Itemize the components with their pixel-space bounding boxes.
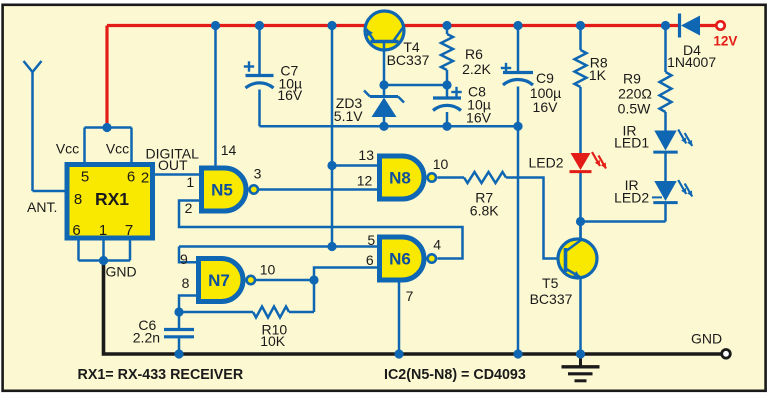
svg-text:220Ω: 220Ω	[618, 86, 652, 102]
svg-text:3: 3	[254, 166, 262, 182]
svg-text:8: 8	[182, 275, 190, 291]
svg-text:0.5W: 0.5W	[618, 101, 651, 117]
svg-text:5: 5	[81, 169, 89, 186]
svg-text:RX1: RX1	[95, 189, 129, 209]
svg-text:ANT.: ANT.	[27, 199, 57, 215]
svg-text:2: 2	[185, 200, 193, 216]
svg-text:2.2n: 2.2n	[133, 330, 160, 346]
svg-text:1K: 1K	[589, 67, 607, 83]
svg-text:GND: GND	[691, 331, 722, 347]
svg-text:10: 10	[433, 156, 449, 172]
svg-text:2.2K: 2.2K	[462, 61, 491, 77]
svg-text:13: 13	[358, 147, 374, 163]
svg-text:16V: 16V	[533, 99, 559, 115]
svg-text:OUT: OUT	[158, 157, 188, 173]
svg-text:6: 6	[72, 222, 80, 239]
svg-text:6.8K: 6.8K	[470, 203, 499, 219]
svg-text:R6: R6	[465, 46, 483, 62]
svg-text:GND: GND	[106, 264, 137, 280]
svg-text:C9: C9	[536, 70, 554, 86]
svg-text:Vcc: Vcc	[56, 141, 79, 157]
svg-text:BC337: BC337	[530, 291, 573, 307]
svg-text:12: 12	[357, 172, 373, 188]
svg-text:IC2(N5-N8) = CD4093: IC2(N5-N8) = CD4093	[384, 367, 526, 383]
svg-text:8: 8	[74, 191, 82, 208]
svg-text:RX1= RX-433 RECEIVER: RX1= RX-433 RECEIVER	[78, 367, 244, 383]
svg-text:6: 6	[127, 169, 135, 186]
svg-text:10: 10	[260, 262, 276, 278]
svg-text:9: 9	[180, 251, 188, 267]
svg-text:12V: 12V	[713, 34, 737, 49]
svg-text:10K: 10K	[260, 333, 286, 349]
svg-text:LED2: LED2	[614, 189, 649, 205]
svg-text:16V: 16V	[277, 87, 303, 103]
svg-text:2: 2	[141, 170, 149, 187]
svg-text:5.1V: 5.1V	[334, 108, 363, 124]
svg-text:N5: N5	[211, 181, 233, 200]
svg-text:N6: N6	[389, 250, 411, 269]
svg-text:N8: N8	[389, 169, 411, 188]
svg-text:BC337: BC337	[387, 52, 430, 68]
svg-text:7: 7	[125, 222, 133, 239]
svg-text:6: 6	[366, 252, 374, 268]
svg-text:4: 4	[433, 236, 441, 252]
svg-text:5: 5	[367, 232, 375, 248]
svg-text:16V: 16V	[466, 110, 492, 126]
svg-text:1: 1	[99, 222, 107, 239]
svg-text:R9: R9	[623, 71, 641, 87]
svg-text:LED1: LED1	[614, 135, 649, 151]
svg-text:1N4007: 1N4007	[667, 54, 716, 70]
svg-text:N7: N7	[208, 271, 230, 290]
svg-text:14: 14	[221, 142, 237, 158]
svg-text:T5: T5	[542, 275, 559, 291]
svg-text:Vcc: Vcc	[106, 141, 129, 157]
svg-text:1: 1	[186, 174, 194, 190]
svg-text:7: 7	[406, 288, 414, 304]
svg-text:LED2: LED2	[528, 155, 563, 171]
